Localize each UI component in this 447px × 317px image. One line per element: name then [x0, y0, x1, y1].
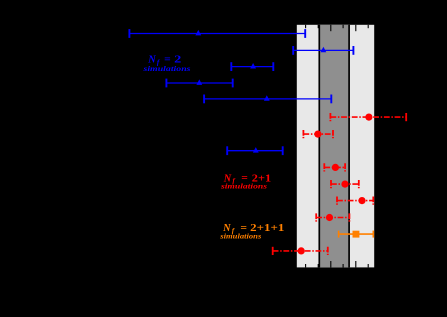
- red data row R7: [273, 247, 328, 255]
- vertical line left edge: [318, 25, 320, 268]
- red data row R1: [330, 113, 406, 121]
- orange data row O1: [339, 231, 374, 238]
- svg-text:simulations: simulations: [142, 65, 191, 73]
- red data row R6: [316, 213, 349, 221]
- red data row R3: [324, 163, 345, 171]
- svg-text:simulations: simulations: [219, 233, 262, 241]
- red data row R5: [337, 197, 373, 205]
- red data row R4: [331, 180, 359, 188]
- blue data row b4: [166, 79, 232, 88]
- axis ticks top: [306, 25, 369, 31]
- svg-text:=: =: [164, 55, 171, 66]
- blue data row b5: [204, 95, 331, 104]
- red Nf=2+1 label: [220, 173, 271, 191]
- light gray band: [297, 25, 374, 268]
- red data row R2: [303, 130, 333, 138]
- svg-text:2: 2: [174, 55, 181, 66]
- dark gray band: [319, 25, 349, 268]
- blue data row b1: [129, 29, 305, 38]
- vertical line right edge: [348, 25, 350, 268]
- orange Nf=2+1+1 label: [219, 223, 284, 241]
- blue data row b6: [227, 146, 283, 155]
- blue data row b2: [293, 46, 353, 55]
- blue data row b3: [231, 62, 273, 71]
- svg-text:simulations: simulations: [220, 183, 268, 191]
- blue Nf=2 label: [142, 55, 191, 74]
- axis ticks bottom: [306, 261, 369, 267]
